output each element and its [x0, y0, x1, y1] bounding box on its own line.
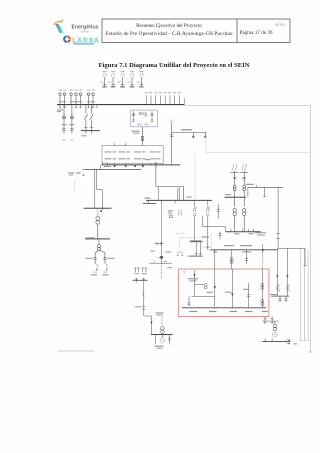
transformer T1	[96, 208, 100, 239]
breaker on stub x220	[219, 232, 222, 240]
substation block U2 (dashes table)	[102, 146, 163, 164]
coil glyphs on line feeders	[276, 285, 289, 292]
line feeder col3 in red box	[231, 269, 233, 308]
generator G1 Ayanunga	[231, 164, 239, 197]
label Pucchau TV	[188, 278, 198, 281]
transformer TG1	[233, 197, 236, 231]
arrows at bus CH right end	[286, 339, 290, 344]
arrow on feeder	[150, 322, 152, 325]
svg-text:Figura 7.1 Diagrama Unifilar d: Figura 7.1 Diagrama Unifilar del Proyect…	[99, 62, 250, 69]
bay tick labels	[145, 92, 176, 93]
links below red box right	[262, 316, 279, 323]
breaker col4 in red box	[247, 283, 250, 308]
bus 60kV Vizcarra	[146, 199, 212, 201]
tiny labels above top symbols	[59, 71, 181, 93]
transformer feeder col2 in red box	[214, 274, 216, 308]
feeders from bus60 down to Pucchau	[194, 216, 196, 241]
wire link to plant bus	[203, 227, 226, 232]
bus Ayanunga gen	[225, 196, 246, 198]
labels under HV bus	[234, 233, 253, 234]
ticks into block top	[114, 143, 116, 145]
area boundary (faint)	[195, 133, 311, 200]
ticks block bottom to bus	[115, 163, 163, 165]
line feeder F3 with load arrow	[120, 73, 125, 86]
line to CH Ayanunga (exit)	[85, 168, 142, 170]
bus Pucchau SE internal	[182, 307, 266, 309]
load branch BL2	[99, 250, 115, 272]
bus PucchauTG	[210, 249, 279, 251]
junction nubs on bus66	[114, 165, 144, 167]
logo 2 swirl icon	[63, 35, 71, 43]
feeder glyph pair under bus60 a	[178, 210, 182, 216]
small box under bus60	[170, 215, 173, 218]
generator CH Pucchau	[160, 335, 165, 343]
bus CH Pucchau	[151, 334, 172, 336]
fuse FU1 drop from box	[141, 127, 143, 146]
svg-text:Resumen Ejecutivo del Proyecto: Resumen Ejecutivo del Proyecto	[136, 24, 202, 29]
cable head CH1 x171.6	[170, 120, 174, 165]
logo Energetica icon	[54, 20, 64, 34]
feeder column C x85.9	[84, 105, 87, 131]
feeder glyph pair under bus60 b	[193, 206, 197, 215]
disconnector group DS1 above bus	[59, 93, 67, 105]
node marker in red box	[183, 271, 185, 273]
link line 138kV tap	[172, 129, 207, 138]
labels under columns A,B	[68, 172, 80, 175]
feeder drop left of red box	[142, 283, 151, 335]
line LT double circuit	[178, 188, 180, 201]
line feeder F4 with load arrow	[130, 73, 135, 86]
generator CH right	[273, 332, 278, 337]
side drops CH Pucchau	[155, 335, 171, 345]
disconnector group DS3 above bus	[87, 93, 95, 105]
bus Ayanunga HV	[226, 231, 261, 233]
transformer T2	[98, 239, 101, 251]
bay ticks above main bus	[146, 95, 184, 104]
labels CH Pucchau	[155, 346, 164, 349]
transformer col5 in red box	[261, 269, 264, 308]
load branch BL1	[85, 250, 99, 272]
caption note	[58, 350, 94, 351]
check marks in box	[138, 124, 149, 126]
wire right edge drop	[310, 105, 312, 352]
wire bus66 to bus60	[156, 165, 183, 201]
bay ticks bus60	[162, 200, 219, 205]
bus label	[187, 197, 192, 198]
project boundary (red)	[178, 269, 269, 316]
coupler ticks on bus	[103, 162, 158, 168]
feeder column A x64	[62, 105, 67, 141]
disconnector group DS2 above bus	[70, 93, 82, 105]
bus feeders right	[271, 295, 289, 297]
aux feeder col1 in red box	[188, 271, 215, 306]
breaker drop x246.6	[245, 250, 248, 264]
Pucchau tap block label bar	[190, 241, 203, 243]
relay blocks in box	[139, 112, 147, 116]
label left of bus	[145, 159, 150, 160]
switchgear box U1	[131, 110, 158, 127]
bus 66kV mid	[102, 164, 181, 166]
bus label CH Ayan	[104, 166, 111, 167]
label SE main bus	[57, 109, 63, 112]
labels under internal bus	[189, 311, 268, 312]
bay ticks on HV bus	[231, 229, 253, 232]
transmission line double x95-97	[95, 169, 103, 208]
line to SEIN (light)	[185, 104, 311, 106]
feeder to Tingo cluster	[149, 204, 172, 279]
drop into red box col2	[214, 250, 216, 274]
instrument P1 in box	[132, 111, 135, 122]
bus L2 label	[86, 237, 95, 238]
feeder glyph pair under bus60 c	[206, 206, 210, 215]
tick x96.9	[96, 105, 98, 109]
label near tap	[202, 236, 209, 237]
labels left of red box	[156, 312, 164, 315]
metering TT pair a	[134, 268, 140, 272]
stub x264.5	[264, 187, 266, 197]
svg-text:Monzón: Monzón	[81, 30, 90, 33]
dashed drop from red box	[161, 316, 163, 326]
breaker drop x218	[217, 205, 220, 219]
block internal rows	[105, 152, 161, 160]
arrowheads on line feeders	[276, 275, 278, 278]
connector bus66 to exit line	[99, 165, 101, 170]
bus 220kV main	[57, 104, 185, 106]
drop to TG bus	[207, 238, 209, 250]
bus 138kV left	[81, 130, 100, 132]
generator G2 Ayanunga	[240, 164, 248, 197]
line feeder F1 with load arrow	[102, 73, 107, 86]
svg-text:Estudio de Pre Operatividad -: Estudio de Pre Operatividad - C.H.Ayanun…	[106, 31, 233, 37]
bus small left of red box	[133, 278, 148, 283]
transformer CH right	[273, 321, 277, 331]
bus SE Aya 1	[84, 207, 112, 209]
line tap to x278	[277, 187, 307, 265]
line to SEIN tap	[246, 184, 283, 198]
line feeder F2 with load arrow	[111, 73, 116, 86]
transformer TG2	[243, 197, 246, 231]
labels under load branches	[91, 274, 109, 275]
feeder column B x71.9	[69, 105, 74, 141]
metering TT pair b	[142, 268, 148, 272]
SEIN trunk lines	[300, 248, 310, 340]
dashed stub below labels	[74, 180, 76, 191]
jumper legs	[177, 252, 184, 256]
svg-text:Página 17 de 26: Página 17 de 26	[240, 31, 274, 36]
bus left stub	[143, 202, 156, 204]
feeder column D x91.4	[90, 105, 93, 131]
transformer Pucchau	[161, 327, 165, 335]
label vertical on trunk	[304, 252, 305, 262]
small labels under bus60	[168, 210, 173, 213]
faint zone borders mid	[176, 232, 212, 248]
DS below-bus stubs	[59, 105, 94, 108]
bus SE Aya 2	[85, 238, 110, 240]
label CH Canaron	[255, 232, 266, 235]
header box	[102, 19, 290, 43]
line feeders to CH right	[277, 248, 287, 296]
bus CH right	[262, 341, 290, 343]
below-bus stubs for C,D	[86, 131, 92, 134]
line feeder F5 with load arrow	[139, 73, 144, 86]
Pucchau tap block legs	[189, 242, 203, 256]
arrow feeder x262.8	[262, 244, 264, 269]
svg-text:02/2011: 02/2011	[275, 23, 286, 27]
transformer drop to col3	[230, 250, 233, 269]
labels Tingo cluster	[150, 251, 172, 269]
wire feeder x158	[157, 186, 159, 200]
instrument P2 in box	[151, 111, 154, 122]
label fuse left	[132, 131, 140, 134]
